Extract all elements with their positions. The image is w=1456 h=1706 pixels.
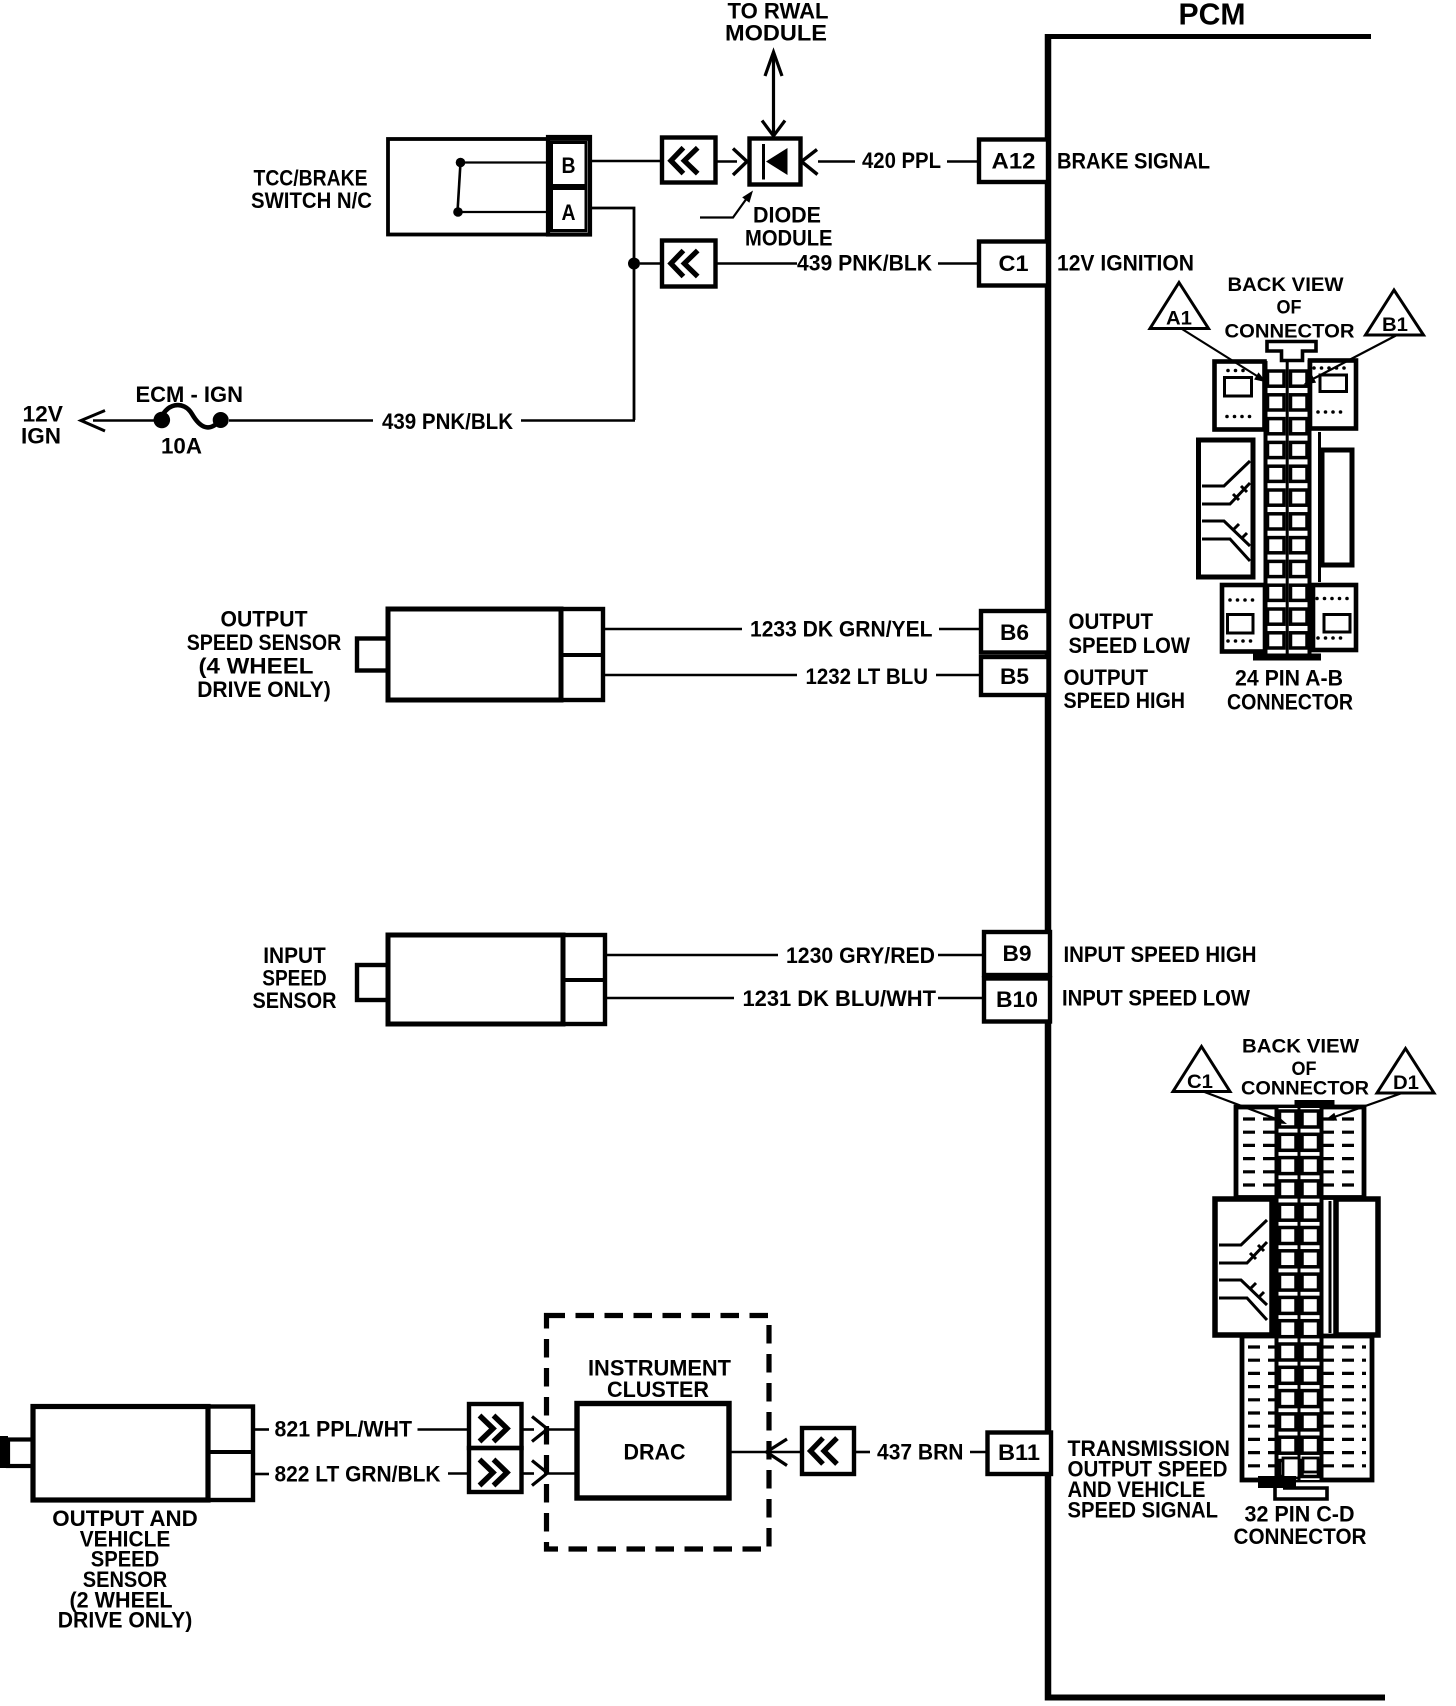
wire connector to diode module [716, 160, 738, 163]
svg-text:1231 DK BLU/WHT: 1231 DK BLU/WHT [743, 986, 937, 1011]
svg-text:SWITCH N/C: SWITCH N/C [251, 188, 372, 213]
diode module label [745, 203, 833, 251]
output and vehicle speed sensor body [33, 1407, 208, 1501]
svg-text:B10: B10 [996, 987, 1038, 1012]
24-pin connector right bottom block [1313, 585, 1356, 650]
svg-text:B1: B1 [1382, 314, 1408, 336]
svg-text:SPEED SENSOR: SPEED SENSOR [187, 630, 342, 655]
B1 leader arrow [1304, 336, 1397, 385]
svg-text:SENSOR: SENSOR [253, 988, 337, 1013]
svg-text:ECM - IGN: ECM - IGN [136, 382, 244, 407]
svg-text:C1: C1 [1187, 1071, 1213, 1093]
32-pin connector upper block with hatching [1236, 1107, 1364, 1198]
svg-text:MODULE: MODULE [745, 226, 833, 251]
inline connector (brake row) [662, 138, 716, 183]
24-pin connector left bottom block [1222, 585, 1265, 652]
12V IGN label [21, 402, 63, 449]
svg-text:INPUT: INPUT [263, 943, 326, 968]
svg-text:IGN: IGN [21, 424, 61, 449]
svg-text:TCC/BRAKE: TCC/BRAKE [254, 166, 368, 191]
svg-text:A12: A12 [992, 149, 1036, 174]
svg-text:B5: B5 [1000, 664, 1029, 689]
ovss nub [0, 1436, 33, 1468]
svg-text:(4 WHEEL: (4 WHEEL [199, 654, 314, 679]
instrument cluster dashed box [547, 1316, 770, 1550]
32-pin connector center pin columns [1277, 1106, 1331, 1482]
C1 leader arrow [1205, 1092, 1288, 1124]
svg-text:DRIVE ONLY): DRIVE ONLY) [197, 677, 331, 702]
callout triangle B1 [1366, 290, 1424, 336]
32-pin connector right latch block [1336, 1199, 1378, 1335]
svg-text:SPEED SIGNAL: SPEED SIGNAL [1068, 1498, 1219, 1523]
PCM pin B10 [984, 979, 1050, 1022]
svg-text:821 PPL/WHT: 821 PPL/WHT [275, 1417, 413, 1442]
24-pin connector left latch block [1199, 440, 1254, 577]
svg-text:CONNECTOR: CONNECTOR [1241, 1078, 1369, 1100]
24-pin connector right latch block [1322, 450, 1352, 565]
PCM pin B9 [984, 932, 1050, 975]
svg-text:12V IGNITION: 12V IGNITION [1057, 251, 1194, 276]
svg-text:CONNECTOR: CONNECTOR [1234, 1524, 1367, 1549]
OUTPUT SPEED HIGH label [1064, 665, 1186, 713]
callout triangle D1 [1377, 1049, 1434, 1095]
inline connector (437 row) [802, 1428, 854, 1474]
input speed sensor label [253, 943, 337, 1013]
wire 1231 [605, 997, 984, 1000]
fuse ECM-IGN 10A [154, 405, 229, 428]
wire 439 label to vertical wire [521, 419, 635, 422]
input speed sensor body [388, 935, 563, 1024]
svg-text:32 PIN C-D: 32 PIN C-D [1245, 1502, 1355, 1527]
wire 821 [253, 1428, 470, 1431]
svg-text:DIODE: DIODE [753, 203, 821, 228]
wire to RWAL module with up/down arrows [762, 52, 785, 136]
svg-text:CLUSTER: CLUSTER [607, 1377, 709, 1402]
svg-text:BACK VIEW: BACK VIEW [1242, 1036, 1360, 1058]
wire 1232 [603, 674, 981, 677]
arrow into DRAC (822 row) [521, 1461, 577, 1486]
PCM pin A12 [979, 140, 1048, 183]
24 pin A-B connector label [1227, 666, 1353, 715]
inline connector (ignition row) [662, 241, 716, 287]
32-pin connector back view label [1241, 1036, 1369, 1100]
diode module leader arrow [700, 191, 753, 218]
svg-text:437 BRN: 437 BRN [877, 1440, 964, 1465]
wire 420 PPL to A12 [947, 160, 979, 163]
svg-text:B9: B9 [1003, 941, 1032, 966]
TCC/BRAKE switch label [251, 166, 372, 214]
PCM pin B11 [988, 1433, 1052, 1475]
svg-text:439 PNK/BLK: 439 PNK/BLK [382, 409, 514, 434]
32-pin connector bottom cells [1283, 1458, 1318, 1478]
svg-text:BRAKE SIGNAL: BRAKE SIGNAL [1057, 149, 1210, 174]
24-pin connector top tab [1267, 342, 1316, 361]
32 pin C-D connector label [1234, 1502, 1367, 1550]
32-pin connector left latch block [1215, 1199, 1272, 1335]
svg-text:1230 GRY/RED: 1230 GRY/RED [786, 943, 935, 968]
svg-text:SPEED LOW: SPEED LOW [1069, 633, 1191, 658]
output speed sensor label [187, 607, 342, 703]
instrument cluster label [588, 1356, 731, 1403]
32-pin connector lower block with hatching [1242, 1336, 1372, 1480]
wire 1230 [605, 954, 984, 957]
svg-text:439 PNK/BLK: 439 PNK/BLK [797, 251, 933, 276]
arrow into diode module [733, 149, 747, 176]
wire 437 [854, 1451, 988, 1454]
svg-text:BACK VIEW: BACK VIEW [1228, 274, 1345, 296]
PCM pin B5 [981, 657, 1049, 695]
wire fuse to 439 label [229, 419, 373, 422]
output and vehicle speed sensor label [52, 1506, 198, 1633]
arrow out of diode module [802, 150, 818, 175]
24-pin connector back view label [1225, 274, 1355, 343]
wire connector to 439 label [716, 262, 798, 265]
svg-text:B: B [562, 153, 576, 178]
wire contact to B [465, 161, 551, 163]
svg-text:DRAC: DRAC [624, 1440, 686, 1465]
svg-text:OUTPUT: OUTPUT [221, 607, 308, 632]
wire 1233 [603, 628, 981, 631]
svg-text:A1: A1 [1166, 308, 1192, 330]
wire B to inline connector [590, 160, 662, 163]
diode module [750, 139, 801, 185]
svg-text:MODULE: MODULE [725, 21, 827, 46]
svg-text:1233 DK GRN/YEL: 1233 DK GRN/YEL [750, 617, 933, 642]
wire junction to inline connector [640, 262, 662, 265]
svg-text:DRIVE ONLY): DRIVE ONLY) [58, 1608, 193, 1633]
wire A to junction and down to fuse row [590, 208, 634, 420]
32-pin connector bottom tab [1258, 1476, 1327, 1499]
callout triangle A1 [1150, 283, 1209, 330]
input speed sensor nub [357, 965, 388, 1000]
wire diode to 420 PPL [818, 160, 855, 163]
TCC/brake switch box [388, 139, 590, 235]
arrow to 12V IGN [81, 411, 154, 432]
svg-text:1232 LT BLU: 1232 LT BLU [806, 664, 929, 689]
svg-text:822 LT GRN/BLK: 822 LT GRN/BLK [275, 1462, 442, 1487]
arrow into DRAC (821 row) [521, 1417, 577, 1442]
24-pin connector center pin columns [1266, 360, 1320, 656]
ovss terminals [208, 1407, 253, 1501]
24-pin connector left top block [1215, 362, 1265, 430]
A1 leader arrow [1182, 329, 1267, 382]
PCM module boundary [1045, 34, 1385, 1701]
svg-text:D1: D1 [1393, 1072, 1419, 1094]
32-pin connector top bar [1295, 1100, 1335, 1106]
svg-text:A: A [562, 200, 576, 225]
callout triangle C1 [1173, 1047, 1230, 1094]
24-pin connector bottom bar [1253, 654, 1321, 661]
TO RWAL MODULE label [725, 0, 829, 46]
output speed sensor terminals [561, 609, 603, 700]
svg-text:OUTPUT: OUTPUT [1064, 665, 1149, 690]
wire contact to A [462, 211, 551, 213]
wire DRAC to inline connector [729, 1451, 802, 1454]
D1 leader arrow [1325, 1093, 1403, 1121]
svg-text:B11: B11 [998, 1440, 1040, 1465]
svg-text:CONNECTOR: CONNECTOR [1225, 321, 1355, 343]
PCM pin C1 [979, 242, 1048, 286]
svg-text:OUTPUT: OUTPUT [1069, 609, 1154, 634]
svg-text:C1: C1 [999, 251, 1029, 276]
wire 822 [253, 1472, 470, 1475]
input speed sensor terminals [563, 935, 605, 1024]
svg-text:10A: 10A [161, 434, 202, 459]
output speed sensor nub [357, 639, 388, 671]
OUTPUT SPEED LOW label [1069, 609, 1191, 658]
24-pin connector right top block [1310, 361, 1356, 429]
svg-text:SPEED: SPEED [262, 966, 327, 991]
svg-text:OF: OF [1277, 297, 1302, 319]
junction [628, 258, 640, 270]
switch contacts [453, 158, 465, 217]
inline connector (821 row) [469, 1404, 522, 1448]
svg-text:24 PIN A-B: 24 PIN A-B [1235, 666, 1343, 691]
switch terminal block [548, 137, 590, 235]
inline connector (822 row) [469, 1448, 522, 1492]
svg-text:420 PPL: 420 PPL [862, 148, 941, 173]
svg-text:B6: B6 [1000, 620, 1029, 645]
svg-text:CONNECTOR: CONNECTOR [1227, 690, 1353, 715]
svg-text:INPUT SPEED LOW: INPUT SPEED LOW [1062, 986, 1251, 1011]
svg-text:INPUT SPEED HIGH: INPUT SPEED HIGH [1064, 942, 1257, 967]
PCM pin B6 [981, 611, 1049, 653]
wire to C1 [938, 262, 979, 265]
TRANSMISSION OUTPUT SPEED label [1068, 1436, 1231, 1523]
DRAC box [577, 1404, 729, 1499]
svg-text:PCM: PCM [1179, 0, 1246, 32]
arrow at cluster boundary [767, 1439, 788, 1466]
svg-text:SPEED HIGH: SPEED HIGH [1064, 688, 1186, 713]
output speed sensor body [388, 609, 561, 700]
